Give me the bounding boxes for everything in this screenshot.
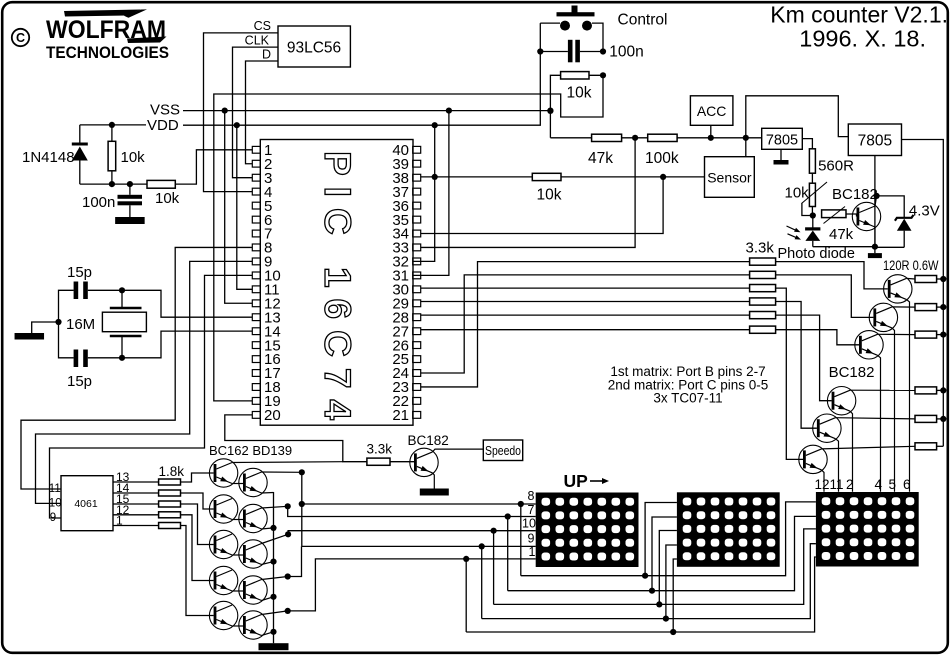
svg-text:PIC 16C74: PIC 16C74: [317, 151, 358, 431]
wire 120R R16 to bus: [937, 278, 944, 280]
svg-text:11: 11: [830, 477, 844, 492]
wire Q16 collector out: [262, 577, 288, 580]
svg-text:11: 11: [49, 483, 61, 495]
junction crystal top: [119, 287, 125, 293]
svg-text:VDD: VDD: [147, 117, 179, 134]
wire gnd tap: [32, 322, 59, 333]
wire rail stub to sensor top: [745, 138, 747, 157]
wire Q7 collector up: [875, 196, 877, 206]
wire 120R R21 to bus: [937, 445, 944, 447]
diode D1 1N4148 symbol: [72, 143, 88, 185]
junction 120R R19 to bus: [940, 387, 946, 393]
svg-text:Speedo: Speedo: [485, 444, 521, 458]
transistor Q2 BC182: [869, 303, 897, 331]
wire CS from 93LC56 to PIC pin4: [204, 33, 279, 192]
wire 3.3k row5 to Q4 base: [776, 315, 832, 401]
wire 120R R19 to bus: [937, 389, 944, 391]
wire Q8 emitter to Q13 base: [232, 483, 243, 485]
junction VSS to pin12 branch: [222, 108, 228, 114]
wire VDD to PIC pin32 and sensor line: [413, 125, 435, 261]
resistor R3 10k: [561, 72, 589, 79]
junction 120R R17 to bus: [940, 304, 946, 310]
resistor R20 120R: [915, 415, 937, 422]
resistor R1 10k vertical: [108, 141, 116, 171]
wire PIC pin8 to 4061 pin11: [21, 247, 252, 489]
IC U5 4061 box: [61, 476, 113, 531]
junction VSS end at 10k: [547, 108, 553, 114]
resistor R19 120R: [915, 387, 937, 394]
wire 3.3k row2 to Q2 base: [776, 275, 874, 318]
resistor R21 120R: [915, 443, 937, 450]
resistor R7 560R vertical: [809, 149, 815, 173]
wire matrix2 row 1 feed: [645, 503, 677, 576]
wire U5 pin 12 to 1.8k: [113, 514, 159, 516]
wire R1 top lead: [111, 125, 113, 141]
transistor Q18 BC182: [410, 448, 438, 476]
MCU U1 PIC 16C74 box: [260, 140, 413, 426]
transistor Q11 BC162: [209, 566, 237, 594]
wire R8 wiper: [802, 203, 813, 216]
svg-text:Km counter V2.1.: Km counter V2.1.: [770, 2, 948, 28]
connector ACC box: [690, 96, 733, 126]
wire 47k to 100k: [622, 137, 648, 139]
wire Q1 emitter to matrix column: [906, 299, 909, 491]
logo under swoosh: [127, 37, 167, 44]
wire Q4 collector to 120R: [850, 389, 915, 391]
resistor R12 3.3k: [750, 285, 776, 292]
wire w drop 2: [507, 517, 509, 591]
transistor Q8 BC162: [209, 459, 237, 487]
svg-text:1996. X. 18.: 1996. X. 18.: [799, 26, 926, 52]
transistor Q7 BC182: [852, 202, 880, 230]
resistor R11 3.3k: [750, 271, 776, 278]
wire VDD to PIC pin11: [237, 125, 253, 289]
junction gnd node: [872, 244, 878, 250]
wire VSS to PIC pin12: [225, 111, 253, 304]
sensor box: [705, 157, 755, 198]
wire Q18 emitter to gnd: [433, 473, 435, 489]
svg-text:4061: 4061: [74, 498, 98, 510]
R9 pot diagonal: [824, 207, 846, 224]
wire branch to PIC pin34: [421, 177, 663, 234]
wire zener bottom to gnd node: [875, 246, 904, 248]
junction pair1 collector: [299, 469, 305, 475]
resistor R16 120R: [915, 276, 937, 283]
junction w8 start: [299, 501, 305, 507]
wire Q9 emitter to Q14 base: [232, 519, 243, 521]
wire w9 row: [302, 545, 536, 547]
junction rail pin33 branch: [632, 135, 638, 141]
wire matrix2 row 5 feed: [673, 559, 677, 632]
junction zener top branch: [874, 193, 880, 199]
wire crystal top row: [88, 290, 253, 317]
resistor R24 1.8k: [159, 501, 181, 507]
junction w5 drop: [463, 556, 469, 562]
wire bus row 4: [482, 544, 816, 619]
transistor Q14 BD139: [239, 504, 267, 532]
junction C1 stem: [127, 181, 133, 187]
junction VDD to pin32 branch: [432, 122, 438, 128]
wire R7 to R8: [811, 173, 813, 183]
wire ACC stem: [710, 125, 712, 138]
svg-text:CLK: CLK: [245, 34, 270, 48]
ground crystal: [15, 333, 45, 340]
wire U3 gnd stem: [780, 149, 782, 160]
wire Q13 collector out: [262, 471, 302, 473]
capacitor C1 100n plates: [118, 195, 143, 206]
svg-text:Sensor: Sensor: [707, 170, 752, 186]
svg-text:9: 9: [528, 532, 535, 546]
wire Q13 emitter to rail: [262, 492, 274, 495]
wire 3.3k row6 to Q3 base: [776, 330, 859, 345]
svg-text:7805: 7805: [766, 133, 798, 149]
transistor Q9 BC162: [209, 495, 237, 523]
wire Q1 collector to 120R: [906, 277, 915, 280]
transistor Q12 BC162: [209, 601, 237, 629]
svg-text:Control: Control: [618, 12, 668, 29]
svg-text:47k: 47k: [588, 150, 613, 167]
junction bus3 matrix2 branch: [656, 601, 662, 607]
svg-text:16M: 16M: [66, 316, 95, 333]
regulator U4 7805 box: [848, 124, 901, 156]
wire CLK from 93LC56 to PIC pin3: [233, 47, 279, 178]
crystal X1 16M symbol: [102, 290, 146, 358]
svg-text:8: 8: [528, 489, 535, 503]
svg-text:VSS: VSS: [150, 102, 180, 119]
wire pair1 BC162 collector extension: [232, 461, 343, 464]
U1 right pin boxes 40-21: [413, 146, 421, 418]
svg-text:10k: 10k: [537, 187, 562, 204]
wire gnd node stem: [874, 247, 876, 253]
svg-text:93LC56: 93LC56: [287, 40, 341, 57]
junction emitter rail: [270, 594, 276, 600]
transistor Q10 BC162: [209, 530, 237, 558]
svg-text:2: 2: [846, 477, 854, 492]
wire 120R R20 to bus: [937, 418, 944, 420]
wire VDD bus: [183, 23, 540, 125]
svg-text:BC182: BC182: [829, 364, 875, 381]
transistor Q4 BC182: [827, 387, 855, 415]
wire R3 left lead down: [550, 75, 560, 138]
resistor R5 100k: [648, 134, 677, 141]
svg-text:21: 21: [392, 407, 409, 424]
resistor R15 3.3k: [750, 326, 776, 333]
svg-text:10: 10: [49, 498, 62, 510]
wire R2 to PIC pin1: [175, 150, 252, 184]
wire PIC pin28 to 3.3k row5: [421, 314, 750, 316]
wire 3.3k row3 to Q6 base: [776, 288, 803, 459]
svg-text:D: D: [262, 48, 271, 62]
svg-text:1.8k: 1.8k: [159, 464, 185, 479]
wire PIC pin30 to 3.3k row3: [421, 287, 750, 289]
svg-text:10: 10: [522, 517, 536, 531]
wire Q2 collector to 120R: [892, 306, 915, 308]
wire Q15 emitter to rail: [262, 562, 274, 565]
svg-text:100n: 100n: [609, 44, 643, 61]
junction w1 drop: [518, 501, 524, 507]
resistor R6 10k mid: [532, 173, 561, 180]
svg-text:15p: 15p: [67, 264, 92, 281]
wire matrix2 row 2 feed: [652, 517, 677, 591]
wire 3.3k row1 to Q1 base: [776, 262, 888, 289]
junction bus2 matrix2 branch: [649, 588, 655, 594]
wire Q14 collector out: [262, 506, 288, 508]
wire matrix2 row 3 feed: [659, 531, 677, 605]
copyright symbol: [12, 29, 29, 46]
wire rail to 47k: [550, 137, 591, 139]
potentiometer R8 10k vertical: [809, 183, 815, 206]
junction VDD vertical at pin38 line: [432, 174, 438, 180]
svg-text:BC182: BC182: [832, 186, 878, 203]
wire PIC pin9 to 4061 pin10: [36, 261, 253, 503]
wire Q4 emitter to matrix column: [850, 411, 852, 492]
wire bus row 3: [494, 529, 816, 605]
junction sensor pin34 branch: [660, 174, 666, 180]
wire Q12 emitter to Q17 base: [232, 625, 243, 627]
svg-text:Photo diode: Photo diode: [778, 246, 855, 262]
wire Q3 emitter to matrix column: [878, 355, 881, 492]
wire PIC pin20 to 3.3k speedo: [225, 415, 367, 462]
svg-text:12: 12: [815, 477, 830, 492]
zener D3 4.3V symbol: [895, 215, 914, 247]
svg-text:C: C: [16, 31, 25, 45]
junction pair2 collector: [285, 503, 291, 509]
wire crystal bottom row: [88, 331, 253, 358]
wire w drop 3: [493, 531, 495, 605]
resistor R14 3.3k: [750, 312, 776, 319]
wire w drop 4: [481, 546, 483, 618]
svg-text:5: 5: [889, 477, 897, 492]
ground Q18: [420, 489, 449, 496]
pushbutton S1 actuator: [557, 6, 595, 31]
junction 7805 branch: [743, 135, 749, 141]
LED matrix DISP3 5x7: [816, 492, 919, 567]
wire 120R R18 to bus: [937, 334, 944, 336]
transistor Q1 BC182: [884, 275, 912, 303]
svg-text:9: 9: [50, 512, 56, 524]
wire 1.8k row5 to pair5 base: [181, 526, 214, 616]
svg-text:UP: UP: [564, 471, 589, 491]
wire Q16 emitter to rail: [262, 597, 274, 601]
transistor Q16 BD139: [239, 576, 267, 604]
svg-text:3.3k: 3.3k: [367, 442, 393, 457]
label UP arrow: [564, 471, 610, 491]
resistor R10 3.3k: [750, 258, 776, 265]
svg-text:15p: 15p: [67, 373, 92, 390]
svg-text:6: 6: [903, 477, 911, 492]
junction emitter rail bottom: [270, 629, 276, 635]
wire photodiode to gnd node: [813, 246, 875, 248]
svg-text:10k: 10k: [785, 185, 810, 202]
svg-text:1N4148: 1N4148: [22, 149, 75, 166]
wire R27 to Q18 base: [390, 461, 414, 464]
svg-text:4.3V: 4.3V: [909, 203, 940, 220]
wire crystal top node: [59, 290, 74, 358]
svg-text:10k: 10k: [567, 85, 592, 102]
svg-text:7805: 7805: [858, 133, 892, 150]
wire zener top: [877, 196, 905, 217]
wire D from 93LC56 to PIC pin2: [246, 61, 279, 164]
svg-text:47k: 47k: [829, 226, 854, 243]
wire PIC pin27 to 3.3k row6: [421, 329, 750, 331]
wire 1.8k row2 to pair2 base: [181, 493, 214, 509]
svg-text:120R 0.6W: 120R 0.6W: [883, 258, 939, 273]
resistor R27 3.3k speedo: [367, 458, 390, 465]
svg-text:560R: 560R: [818, 158, 854, 175]
wire VDD top to diode and resistor: [79, 125, 81, 144]
wire Q17 emitter to rail: [262, 632, 274, 636]
ground emitter rail: [259, 643, 289, 650]
junction VDD diode R1 top: [109, 122, 115, 128]
junction pot photodiode 47k: [810, 212, 816, 218]
wire R3 right lead: [214, 75, 603, 401]
svg-text:100k: 100k: [645, 150, 679, 167]
wire Q10 emitter to Q15 base: [232, 554, 243, 556]
svg-text:BC182: BC182: [408, 433, 449, 448]
wire 100k to 7805: [677, 137, 762, 139]
junction pair4 collector: [285, 573, 291, 579]
wire PIC pin23 to 3.3k row1: [421, 262, 750, 387]
wire Q14 emitter to rail: [262, 528, 274, 529]
EEPROM U2 93LC56 box: [278, 26, 350, 67]
wire Q17 collector out: [262, 611, 288, 615]
wire pair5 to w1: [288, 559, 536, 611]
U1 right pin numbers 40-21: [392, 142, 409, 424]
junction crystal bottom: [119, 355, 125, 361]
capacitor C4 100n plates: [568, 40, 580, 63]
svg-text:10k: 10k: [121, 149, 146, 166]
resistor R17 120R: [915, 304, 937, 311]
wire 1.8k row4 to pair4 base: [181, 515, 214, 581]
wire bus row 2: [508, 516, 816, 590]
wire U5 pin 14 to 1.8k: [113, 492, 159, 494]
junction 120R R20 to bus: [940, 416, 946, 422]
resistor R23 1.8k: [159, 490, 181, 496]
wire 120R R17 to bus: [937, 306, 944, 308]
transistor Q5 BC182: [813, 414, 841, 442]
resistor R2 10k horizontal: [147, 180, 175, 188]
junction ACC stem: [708, 135, 714, 141]
wire U3 out to 560R: [802, 139, 812, 149]
logo top swoosh: [64, 10, 141, 17]
transistor Q3 BC182: [855, 331, 883, 359]
capacitor C2 15p plates: [74, 282, 88, 300]
junction w3 drop: [491, 528, 497, 534]
svg-text:ACC: ACC: [697, 103, 727, 119]
junction pair3 collector: [285, 531, 291, 537]
wire U5 pin 1 to 1.8k: [113, 525, 159, 527]
junction pair5 collector: [285, 608, 291, 614]
wire w drop 5: [465, 559, 467, 632]
junction w2 drop: [505, 513, 511, 519]
svg-text:BC162 BD139: BC162 BD139: [209, 443, 292, 458]
wire 1.8k row1 to pair1 base: [181, 473, 214, 482]
ground under U4 node: [868, 253, 882, 258]
svg-text:CS: CS: [254, 19, 271, 33]
resistor R25 1.8k: [159, 512, 181, 518]
wire PIC pin10 to 4061 pin9: [50, 275, 253, 518]
ground under C1: [115, 217, 144, 224]
wire 47k to Q7 base: [846, 214, 857, 217]
wire C1 top stem: [129, 184, 131, 195]
wire Q3 collector to 120R: [878, 333, 916, 335]
wire Q15 collector out: [262, 534, 289, 543]
wire pair2 to w7: [288, 506, 536, 516]
svg-text:7: 7: [528, 503, 535, 517]
wire pair4 stub: [288, 546, 302, 576]
wire diode bottom to junction: [80, 183, 147, 185]
resistor R18 120R: [915, 331, 937, 338]
potentiometer R9 47k: [822, 210, 846, 218]
transistor Q6 BC182: [799, 445, 827, 473]
svg-text:4: 4: [875, 477, 883, 492]
wire rail branch to PIC pin33: [421, 138, 635, 248]
photodiode light arrows: [787, 226, 802, 240]
junction VSS to pin31 branch: [446, 108, 452, 114]
wire R8 bottom: [811, 207, 813, 216]
regulator U3 7805 box: [762, 128, 803, 149]
junction VDD to pin11 branch: [234, 122, 240, 128]
wire w drop 1: [520, 504, 522, 576]
junction C4 right: [600, 48, 606, 54]
wire Q6 collector to 120R: [822, 446, 916, 449]
U1 left pin numbers 1-20: [264, 142, 281, 424]
junction C4 left: [537, 48, 543, 54]
speedo box: [483, 440, 522, 461]
junction R1 bottom: [109, 181, 115, 187]
wire U4 out to right bus: [902, 140, 944, 447]
wire button left: [540, 22, 560, 24]
resistor R22 1.8k: [159, 479, 181, 485]
transistor Q17 BD139: [239, 611, 267, 639]
svg-text:TECHNOLOGIES: TECHNOLOGIES: [46, 44, 169, 62]
capacitor C3 15p plates: [74, 350, 88, 368]
resistor R13 3.3k: [750, 298, 776, 305]
junction w4 drop: [479, 543, 485, 549]
wire pair1 to row8 and w9: [301, 472, 303, 546]
svg-text:20: 20: [264, 407, 281, 424]
wire pair3 to w10: [288, 531, 536, 535]
wire U5 pin 13 to 1.8k: [113, 481, 159, 483]
svg-text:1: 1: [529, 545, 536, 559]
wire Q7 emitter down: [874, 227, 876, 247]
junction crystal gnd tap: [55, 319, 61, 325]
resistor R4 47k: [592, 134, 622, 141]
wire VDD bus left: [80, 124, 146, 126]
wire R1 bottom lead: [111, 171, 113, 184]
wire U4 gnd stem: [874, 156, 876, 247]
wire PIC pin29 to 3.3k row4: [421, 301, 750, 303]
junction bus4 matrix2 branch: [663, 616, 669, 622]
junction bus1 matrix2 branch: [642, 573, 648, 579]
resistor R26 1.8k: [159, 523, 181, 529]
wire C4 right lead: [580, 51, 603, 53]
R8 pot diagonal: [802, 182, 828, 204]
wire C4 left lead: [540, 51, 568, 53]
U1 left pin boxes 1-20: [252, 146, 260, 418]
junction bus5 matrix2 branch: [670, 629, 676, 635]
LED matrix DISP2 5x7: [677, 492, 780, 567]
ground under U3: [774, 160, 789, 165]
wire matrix2 row 4 feed: [666, 545, 677, 619]
junction R3 right: [600, 72, 606, 78]
junction emitter rail: [270, 559, 276, 565]
wire 3.3k row4 to Q5 base: [776, 302, 817, 429]
photodiode D2 symbol: [805, 216, 820, 247]
svg-text:10k: 10k: [155, 190, 180, 207]
wire Q11 emitter to Q16 base: [232, 590, 243, 592]
wire Q5 collector to 120R: [835, 418, 915, 419]
